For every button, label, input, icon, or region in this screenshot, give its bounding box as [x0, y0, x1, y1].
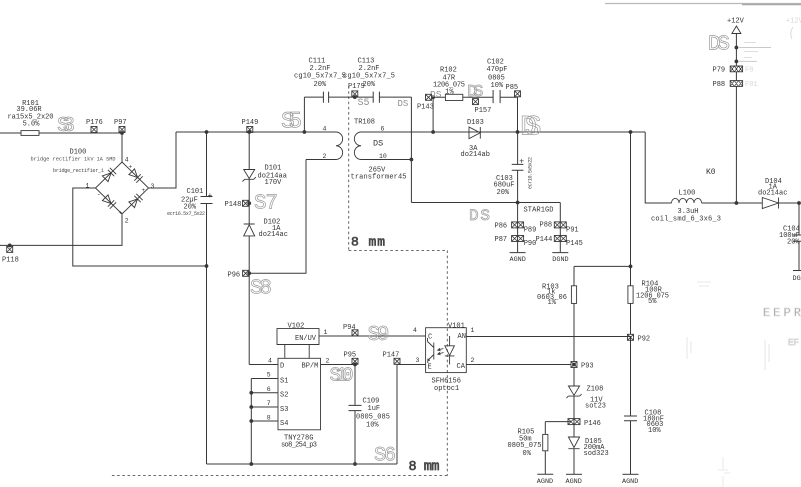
capacitor C111: [323, 92, 328, 103]
testpoint P90: [518, 236, 524, 242]
wire star AGND column: [517, 203, 519, 253]
svg-text:Z108: Z108: [587, 386, 604, 394]
diode D105: [568, 437, 579, 449]
svg-text:S6: S6: [374, 445, 396, 468]
junction S3: [249, 405, 253, 409]
svg-text:cg10_5x7x7_5: cg10_5x7x7_5: [343, 72, 395, 80]
capacitor C104: [793, 235, 801, 271]
svg-text:C101: C101: [187, 188, 204, 196]
wire snubber tap left: [425, 97, 445, 132]
svg-text:S4: S4: [280, 420, 288, 428]
bridge diode top-left: [102, 168, 116, 182]
junction drain node: [247, 271, 251, 275]
wire Y-cap row riser from rail: [303, 97, 305, 132]
wire L100 to D104: [702, 202, 763, 204]
junction snubber anode: [431, 130, 435, 134]
transformer TR108 secondary winding: [354, 132, 365, 160]
svg-text:so8_254_p3: so8_254_p3: [281, 442, 317, 450]
svg-text:2: 2: [471, 357, 475, 364]
wire R103 column to P93: [573, 303, 575, 386]
svg-text:R102: R102: [440, 67, 457, 75]
wire feedback column lower: [630, 303, 632, 416]
wire R105 to AGND: [544, 451, 546, 474]
svg-text:P79: P79: [713, 67, 726, 75]
wire bridge pin2 to neutral: [0, 214, 122, 245]
wire Z108 to P146: [573, 396, 575, 437]
svg-text:P91: P91: [566, 227, 579, 235]
testpoint P149: [247, 127, 253, 133]
svg-text:P88: P88: [713, 81, 726, 89]
svg-text:20%: 20%: [314, 81, 327, 89]
svg-text:P90: P90: [524, 240, 537, 248]
junction BP node: [353, 363, 357, 367]
svg-text:bridge rectifier 1kV 1A SMD: bridge rectifier 1kV 1A SMD: [31, 157, 116, 163]
opto led: [438, 336, 455, 365]
wire drain pin: [249, 364, 278, 366]
testpoint P147: [394, 358, 400, 364]
wire R103 column upper: [573, 266, 575, 285]
wire Y-cap row left: [304, 96, 323, 98]
junction snubber cathode: [516, 130, 520, 134]
svg-text:P92: P92: [638, 335, 651, 343]
wire output corner to L100: [645, 132, 671, 203]
svg-text:5: 5: [267, 372, 271, 379]
svg-text:sot23: sot23: [585, 403, 606, 411]
wire P146 to R105: [545, 422, 571, 435]
transformer TR108 primary winding: [331, 132, 343, 160]
svg-text:DS: DS: [708, 34, 730, 57]
wire Y-cap row mid: [329, 96, 373, 98]
region boundary dashed top: [349, 249, 448, 251]
junction P179: [353, 95, 357, 99]
junction 12V tap: [735, 201, 739, 205]
wire Y-cap row right: [379, 96, 411, 98]
svg-text:CA: CA: [457, 363, 466, 371]
wire D105 to AGND: [573, 449, 575, 474]
svg-text:170V: 170V: [265, 179, 283, 187]
svg-text:4: 4: [323, 126, 327, 133]
junction snubber top: [431, 95, 435, 99]
bridge diode top-right: [129, 169, 143, 183]
svg-text:2: 2: [326, 357, 330, 364]
wire C109 to rail: [354, 411, 356, 464]
svg-text:D: D: [280, 362, 284, 370]
svg-text:5.0%: 5.0%: [23, 121, 41, 129]
capacitor C109: [349, 405, 362, 410]
svg-text:4: 4: [268, 357, 272, 364]
junction top rail C101: [205, 130, 209, 134]
ghost stub wire 1: [738, 47, 771, 49]
testpoint P143: [426, 94, 432, 100]
testpoint P95: [352, 358, 358, 364]
testpoint P148: [243, 200, 249, 206]
svg-text:AGND: AGND: [622, 478, 638, 486]
svg-text:+: +: [208, 192, 213, 201]
wire clamp column lower to drain: [248, 236, 250, 365]
junction C104 corner: [797, 201, 801, 205]
wire BP/M pin: [321, 364, 356, 366]
junction 12V stub2: [735, 60, 739, 64]
testpoint P97: [119, 127, 125, 133]
wire BP to C109: [354, 365, 356, 406]
svg-text:470pF: 470pF: [487, 66, 508, 74]
svg-text:P157: P157: [475, 107, 492, 115]
wire drain to transformer primary: [249, 160, 306, 274]
testpoint P85: [515, 91, 521, 97]
wire snubber mid: [463, 96, 493, 98]
testpoint P88: [554, 222, 560, 228]
ground DGND star: [552, 252, 568, 254]
svg-text:L100: L100: [679, 190, 696, 198]
capacitor C102: [493, 90, 500, 103]
ground AGND C108: [623, 473, 639, 475]
svg-text:+: +: [129, 164, 133, 171]
junction minus rail C101: [205, 264, 209, 268]
wire minus rail down to bottom rail: [206, 266, 208, 464]
junction S2: [249, 391, 253, 395]
testpoint P94: [352, 330, 358, 336]
svg-text:S3: S3: [57, 115, 75, 138]
svg-text:8: 8: [267, 414, 271, 421]
svg-text:ecr16.5x7_5x22: ecr16.5x7_5x22: [167, 211, 205, 217]
ghost squiggle right mid: [697, 282, 711, 286]
wire transformer primary bottom lead: [306, 159, 331, 161]
svg-text:P144: P144: [536, 236, 553, 244]
svg-text:P149: P149: [242, 119, 259, 127]
testpoint P145: [560, 236, 566, 242]
svg-text:1: 1: [324, 329, 328, 336]
svg-text:DGND: DGND: [552, 256, 568, 264]
junction C109 rail: [353, 462, 357, 466]
svg-text:P118: P118: [2, 257, 19, 265]
IC V102 main box: [278, 358, 321, 430]
svg-text:ecr10.5x5x22: ecr10.5x5x22: [528, 157, 534, 189]
junction clamp rail: [247, 130, 251, 134]
svg-text:D101: D101: [265, 165, 282, 173]
optocoupler V101 box: [426, 328, 467, 373]
svg-text:do214ab: do214ab: [461, 151, 490, 159]
svg-text:3: 3: [416, 357, 420, 364]
wire S1 pin: [251, 378, 278, 380]
diode D102: [244, 224, 255, 236]
svg-text:S5: S5: [358, 98, 370, 109]
region boundary dashed bottom: [109, 475, 447, 477]
diode D101 zener: [243, 170, 256, 182]
junction star ground: [516, 201, 520, 205]
svg-text:20%: 20%: [363, 81, 376, 89]
svg-text:10%: 10%: [648, 427, 661, 435]
ghost marks mid right column: [687, 337, 769, 370]
svg-text:F81: F81: [745, 81, 758, 89]
svg-text:S5: S5: [281, 109, 302, 135]
capacitor C101 plates: [201, 132, 213, 266]
svg-text:C109: C109: [363, 397, 380, 405]
transformer core dashed line: [348, 86, 350, 250]
svg-text:D103: D103: [467, 119, 484, 127]
svg-text:S3: S3: [280, 406, 288, 414]
wire S2 pin: [251, 392, 278, 394]
wire secondary return line: [411, 202, 560, 204]
wire AC line input rail: [0, 132, 122, 134]
svg-text:0805_085: 0805_085: [356, 413, 390, 421]
testpoint P93: [571, 362, 577, 368]
testpoint P92: [628, 334, 634, 340]
svg-text:DS: DS: [520, 113, 542, 144]
ghost curve right edge: [791, 27, 793, 39]
capacitor C108: [624, 416, 637, 421]
svg-text:20%: 20%: [497, 189, 510, 197]
svg-text:STAR1GD: STAR1GD: [524, 207, 554, 215]
testpoint P87: [512, 236, 518, 242]
power +12V symbol: [732, 26, 741, 34]
svg-text:1%: 1%: [445, 88, 454, 96]
testpoint P144: [554, 236, 560, 242]
wire D104 to C104: [779, 203, 800, 235]
svg-text:4: 4: [125, 157, 129, 164]
junction rail Ycap: [303, 130, 307, 134]
svg-text:S2: S2: [280, 392, 288, 400]
diode D104: [762, 198, 778, 209]
wire feedback column upper: [630, 132, 632, 286]
junction secondary return: [410, 158, 414, 162]
wire DC+ top rail: [176, 131, 335, 133]
svg-text:do214ac: do214ac: [758, 190, 787, 198]
svg-text:P89: P89: [524, 227, 537, 235]
wire S bus: [250, 379, 252, 465]
svg-text:V101: V101: [448, 322, 465, 330]
svg-text:DG: DG: [793, 275, 801, 283]
svg-text:TR108: TR108: [354, 119, 375, 127]
svg-text:+: +: [142, 187, 146, 194]
ghost top border line: [605, 3, 801, 5]
region boundary dashed right: [446, 250, 448, 475]
wire snubber right: [500, 97, 517, 132]
wire main secondary line: [366, 131, 646, 133]
wire bridge pin3 to DC rail riser: [149, 132, 177, 188]
svg-text:DS: DS: [469, 207, 490, 225]
ground AGND star: [510, 252, 526, 254]
svg-text:P88: P88: [540, 222, 553, 230]
svg-text:P145: P145: [566, 240, 583, 248]
junction S bus bottom: [249, 462, 253, 466]
svg-text:EN/UV: EN/UV: [295, 335, 317, 343]
svg-text:P97: P97: [114, 119, 127, 127]
ground AGND R105: [537, 473, 553, 475]
wire bridge pin1 to minus rail: [73, 188, 207, 266]
testpoint P157: [473, 99, 479, 105]
svg-text:3: 3: [151, 183, 155, 190]
svg-text:P146: P146: [584, 420, 601, 428]
svg-text:6: 6: [267, 386, 271, 393]
svg-text:E: E: [428, 363, 432, 371]
testpoint P176: [91, 127, 97, 133]
svg-text:V102: V102: [288, 323, 305, 331]
svg-text:BP/M: BP/M: [302, 362, 319, 370]
junction R103 tap: [629, 265, 633, 269]
svg-text:transformer45: transformer45: [351, 174, 407, 182]
svg-text:0805_075: 0805_075: [508, 442, 542, 450]
svg-text:10%: 10%: [366, 422, 379, 430]
svg-text:1uF: 1uF: [368, 405, 381, 413]
svg-text:bridge_rectifier_1: bridge_rectifier_1: [53, 168, 104, 174]
svg-text:P176: P176: [86, 119, 103, 127]
wire P147 to source rail: [396, 365, 398, 465]
wire EN/UV to opto: [319, 335, 426, 337]
ghost capacitor bottom right: [718, 457, 730, 487]
wire bottom source rail: [207, 463, 398, 465]
svg-text:C: C: [428, 333, 432, 341]
svg-text:10%: 10%: [491, 82, 504, 90]
resistor R102 body: [445, 94, 462, 100]
svg-text:DS: DS: [373, 139, 383, 149]
svg-text:5%: 5%: [648, 298, 657, 306]
svg-text:S1: S1: [280, 377, 288, 385]
svg-text:+: +: [519, 158, 524, 167]
junction output to feedback column: [629, 130, 633, 134]
capacitor C103 electrolytic: [512, 132, 524, 203]
svg-text:S8: S8: [250, 278, 272, 301]
svg-text:P86: P86: [495, 223, 508, 231]
svg-text:S7: S7: [254, 193, 278, 216]
svg-text:P143: P143: [417, 104, 434, 112]
junction 12V stub1: [735, 46, 739, 50]
svg-text:EF: EF: [788, 338, 799, 348]
svg-text:P93: P93: [581, 363, 594, 371]
svg-text:8 mm: 8 mm: [409, 460, 440, 475]
wire secondary bottom lead to return: [366, 159, 412, 161]
bridge rectifier D100 diamond: [96, 162, 149, 214]
wire S3 pin: [251, 406, 278, 408]
testpoint P89: [518, 222, 524, 228]
svg-text:+12V: +12V: [786, 18, 801, 26]
svg-text:F8: F8: [745, 67, 753, 75]
junction S4: [249, 419, 253, 423]
resistor R104 body: [628, 286, 633, 304]
svg-text:do214ac: do214ac: [259, 231, 288, 239]
svg-text:1%: 1%: [548, 299, 557, 307]
svg-text:AGND: AGND: [510, 256, 526, 264]
resistor R103 body: [571, 286, 576, 304]
wire opto anode to P92: [466, 337, 630, 341]
svg-text:2: 2: [125, 218, 129, 225]
wire star DGND column: [559, 203, 561, 253]
svg-text:sod323: sod323: [584, 450, 609, 458]
capacitor C113: [373, 92, 379, 103]
wire AC line drop to bridge pin 4: [121, 133, 123, 163]
ground DGND C104: [793, 270, 801, 272]
svg-text:AGND: AGND: [566, 478, 582, 486]
resistor R1 R101 body: [21, 131, 39, 136]
testpoint P91: [560, 222, 566, 228]
svg-text:8 mm: 8 mm: [351, 235, 385, 250]
svg-text:7: 7: [267, 400, 271, 407]
svg-text:D100: D100: [70, 149, 87, 157]
svg-text:cg10_5x7x7_5: cg10_5x7x7_5: [294, 72, 346, 80]
testpoint P79: [730, 66, 742, 72]
opto transistor: [428, 338, 434, 363]
diode D103: [469, 127, 480, 139]
ghost stub wire 2: [738, 60, 757, 62]
bridge diode bottom-left: [102, 195, 116, 209]
inductor L100: [672, 198, 702, 203]
zener Z108: [566, 386, 581, 398]
junction P148: [247, 201, 251, 205]
svg-text:DS: DS: [398, 99, 409, 109]
testpoint P86: [512, 222, 518, 228]
svg-text:AGND: AGND: [537, 478, 553, 486]
svg-text:K0: K0: [706, 168, 716, 177]
wire R103 tap: [574, 265, 631, 267]
svg-text:0%: 0%: [523, 450, 532, 458]
wire C108 to AGND: [630, 421, 632, 474]
testpoint P146: [568, 419, 574, 425]
testpoint P96: [243, 270, 249, 276]
svg-text:optoc1: optoc1: [434, 385, 459, 393]
svg-text:-: -: [97, 191, 101, 198]
wire opto cathode to P93: [466, 364, 574, 366]
junction P118: [8, 244, 12, 248]
IC V102 EN/UV box: [277, 329, 319, 359]
svg-text:P96: P96: [228, 272, 241, 280]
svg-text:2: 2: [323, 153, 327, 160]
wire clamp column upper: [248, 132, 250, 170]
ghost marks near stub: [744, 43, 758, 58]
svg-text:S10: S10: [330, 365, 354, 387]
wire opto emitter to P147: [397, 364, 426, 366]
wire 12V column: [735, 34, 737, 204]
junction P97: [120, 131, 124, 135]
wire S4 pin: [251, 420, 278, 422]
svg-text:S9: S9: [368, 324, 390, 347]
svg-text:+12V: +12V: [727, 18, 745, 26]
ghost top border segment: [742, 4, 801, 6]
svg-text:4: 4: [413, 327, 417, 334]
wire clamp column mid: [248, 179, 250, 224]
testpoint P118: [7, 246, 13, 252]
testpoint P88: [730, 81, 742, 87]
svg-text:P148: P148: [225, 201, 242, 209]
resistor R105 body: [543, 434, 548, 450]
svg-text:coil_smd_6_3x6_3: coil_smd_6_3x6_3: [651, 215, 721, 223]
junction P93: [572, 363, 576, 367]
wire Y-cap to secondary return drop: [410, 97, 412, 202]
testpoint P179: [352, 91, 358, 97]
ground AGND D105: [566, 473, 582, 475]
svg-text:1: 1: [471, 327, 475, 334]
bridge diode bottom-right: [129, 194, 143, 208]
svg-text:AN: AN: [458, 333, 466, 341]
svg-text:P87: P87: [495, 236, 508, 244]
svg-text:20%: 20%: [787, 239, 800, 247]
